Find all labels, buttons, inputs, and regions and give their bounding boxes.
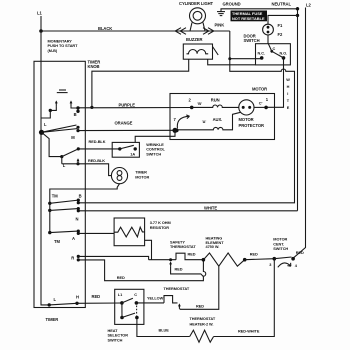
svg-text:PUSH TO START: PUSH TO START [48,44,79,48]
svg-text:SWITCH: SWITCH [146,152,161,156]
svg-text:BLUE: BLUE [159,329,170,333]
svg-text:SWITCH: SWITCH [108,338,123,342]
svg-text:CENT.: CENT. [273,242,284,246]
svg-text:THERMOSTAT: THERMOSTAT [190,317,216,321]
svg-text:1: 1 [266,97,269,102]
svg-text:KNOB: KNOB [88,64,100,69]
svg-text:THERMOSTAT: THERMOSTAT [170,245,196,249]
svg-text:TM: TM [54,239,60,244]
svg-text:RED: RED [188,253,196,257]
svg-text:I: I [287,92,288,96]
svg-text:RED: RED [250,252,258,256]
svg-text:B: B [79,194,82,199]
svg-text:L1: L1 [37,11,42,16]
svg-text:L1: L1 [118,293,123,297]
svg-text:YELLOW: YELLOW [147,296,164,300]
svg-text:RUN: RUN [211,97,220,102]
svg-text:TIMER: TIMER [135,170,147,174]
svg-text:BLACK: BLACK [98,26,112,31]
svg-text:GROUND: GROUND [223,2,241,7]
svg-text:RED: RED [296,251,304,255]
svg-text:RED: RED [175,267,183,271]
svg-text:4: 4 [295,264,298,268]
svg-text:RED: RED [92,294,101,299]
svg-text:M: M [71,135,75,140]
svg-text:'B': 'B' [197,102,202,106]
svg-text:B: B [74,112,77,117]
svg-text:RED-WHITE: RED-WHITE [238,329,260,333]
svg-text:PURPLE: PURPLE [119,102,136,107]
svg-text:PINK: PINK [215,23,225,28]
svg-text:PROTECTOR: PROTECTOR [239,123,265,128]
svg-text:3: 3 [269,263,271,267]
svg-text:SELECTOR: SELECTOR [108,334,129,338]
svg-text:(M-B): (M-B) [48,49,58,53]
svg-text:CYLINDER LIGHT: CYLINDER LIGHT [179,1,214,6]
svg-text:R: R [71,256,74,261]
svg-text:SWITCH: SWITCH [244,38,260,43]
svg-text:THERMOSTAT: THERMOSTAT [164,287,190,291]
svg-text:A: A [72,236,75,241]
svg-text:ORANGE: ORANGE [115,120,133,125]
svg-text:2: 2 [189,98,192,103]
svg-text:MOTOR: MOTOR [135,176,149,180]
svg-text:L: L [54,297,57,302]
svg-text:H: H [287,85,290,89]
svg-text:C': C' [259,101,263,105]
svg-text:L2: L2 [306,2,311,7]
svg-text:F1: F1 [278,23,283,28]
svg-text:L: L [44,122,47,127]
svg-text:N: N [76,217,79,222]
svg-text:4750 W.: 4750 W. [206,245,220,249]
svg-text:H: H [76,294,79,299]
svg-text:NEUTRAL: NEUTRAL [272,1,292,6]
svg-text:3.77 K OHM: 3.77 K OHM [150,221,171,225]
svg-text:HEAT: HEAT [108,329,119,333]
svg-text:BUZZER: BUZZER [186,37,203,42]
svg-text:TM: TM [52,194,58,199]
svg-text:MOTOR: MOTOR [239,117,254,122]
svg-text:7: 7 [174,117,177,122]
svg-text:SAFETY: SAFETY [170,240,185,244]
svg-text:HEATER-2 W.: HEATER-2 W. [190,322,214,326]
svg-text:MOTOR: MOTOR [273,238,287,242]
svg-text:'A': 'A' [202,120,207,124]
svg-text:RED: RED [117,276,125,280]
svg-text:AUX.: AUX. [213,117,223,122]
svg-text:RED-BLK: RED-BLK [89,140,106,144]
svg-text:NOT RESETABLE: NOT RESETABLE [232,16,265,21]
svg-text:RED-BLK: RED-BLK [88,159,105,163]
svg-text:W: W [286,78,290,82]
svg-text:SWITCH: SWITCH [273,247,288,251]
svg-text:WRINKLE: WRINKLE [146,143,164,147]
svg-text:C: C [134,293,137,297]
svg-text:RESISTOR: RESISTOR [150,226,169,230]
svg-text:RED: RED [196,304,204,308]
svg-text:WHITE: WHITE [204,206,217,211]
svg-text:T: T [287,99,290,103]
svg-text:MOMENTARY: MOMENTARY [48,40,73,44]
svg-text:N.O.: N.O. [280,52,288,56]
svg-text:TIMER: TIMER [46,317,59,322]
svg-text:N.C.: N.C. [258,52,266,56]
svg-text:1A: 1A [130,153,135,157]
svg-text:CONTROL: CONTROL [146,148,165,152]
svg-text:F2: F2 [278,32,283,37]
svg-text:E: E [287,106,290,110]
svg-text:MOTOR: MOTOR [252,87,267,92]
